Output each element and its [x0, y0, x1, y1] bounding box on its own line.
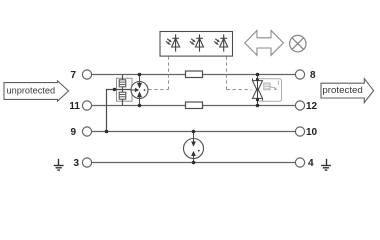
- stub line 7 to fuse F1: [122, 75, 124, 80]
- svg-text:11: 11: [69, 101, 80, 112]
- terminal 3: [82, 158, 91, 167]
- unprotected arrow label: [4, 81, 69, 101]
- stub centre tap to fuse F2: [122, 90, 124, 93]
- LED D2: [196, 34, 204, 51]
- dashed link right LED to suppressor: [227, 56, 252, 89]
- stub fuse F2 to line 11: [122, 99, 124, 105]
- wire line 11-12: [92, 105, 295, 107]
- indicator lamp symbol: [290, 35, 306, 51]
- terminal 8: [295, 70, 304, 79]
- svg-text:10: 10: [306, 127, 318, 138]
- terminal 10: [295, 127, 304, 136]
- resistor R2 on line 11-12: [186, 102, 203, 109]
- svg-text:8: 8: [310, 70, 316, 81]
- ground symbol right of terminal 4: [321, 159, 331, 170]
- terminal 4: [295, 158, 304, 167]
- stub fuse F1 to centre tap: [122, 87, 124, 90]
- svg-text:4: 4: [308, 158, 314, 169]
- wire line 9-10: [92, 131, 295, 133]
- thermal fuse F3 in disconnect box: [264, 83, 270, 90]
- double-headed arrow symbol: [245, 31, 284, 56]
- terminal 7: [82, 70, 91, 79]
- LED indicator box: [160, 32, 233, 57]
- junction dot G1 bottom: [138, 104, 142, 108]
- thermal fuse F2: [119, 92, 126, 99]
- junction dot G2 bottom: [192, 161, 196, 165]
- terminal 9: [82, 127, 91, 136]
- terminal 11: [82, 101, 91, 110]
- junction dot centre tap: [113, 88, 116, 91]
- junction dot G2 top: [192, 130, 196, 134]
- LED D1: [172, 34, 180, 51]
- svg-text:unprotected: unprotected: [7, 85, 56, 96]
- LED D3: [220, 34, 228, 51]
- thermal fuse F1: [119, 80, 126, 87]
- resistor R1 on line 7-8: [186, 71, 203, 78]
- junction dot G1 top: [138, 73, 142, 77]
- gas discharge tube G1 (3-electrode): [131, 75, 148, 106]
- svg-text:12: 12: [306, 101, 318, 112]
- svg-text:9: 9: [70, 127, 76, 138]
- disconnect device box (right): [258, 79, 282, 102]
- thermal fuse box (left arrester): [117, 78, 133, 101]
- svg-text:7: 7: [70, 70, 76, 81]
- disconnect switch arrow: [270, 81, 278, 88]
- ground symbol left of terminal 3: [54, 159, 64, 170]
- wire centre tap to earth line: [107, 90, 132, 132]
- dashed link left LED to arrester: [148, 56, 168, 89]
- junction dots V1: [256, 73, 260, 77]
- wire line 7-8: [92, 74, 295, 76]
- junction dot on line 9-10: [105, 130, 109, 134]
- svg-text:protected: protected: [322, 85, 363, 96]
- svg-text:3: 3: [73, 158, 79, 169]
- terminal 12: [295, 101, 304, 110]
- suppressor diode V1 (bidirectional): [253, 75, 263, 106]
- wire line 3-4: [92, 162, 295, 164]
- protected arrow label: [321, 79, 374, 103]
- gas discharge tube G2 (2-electrode): [184, 132, 204, 163]
